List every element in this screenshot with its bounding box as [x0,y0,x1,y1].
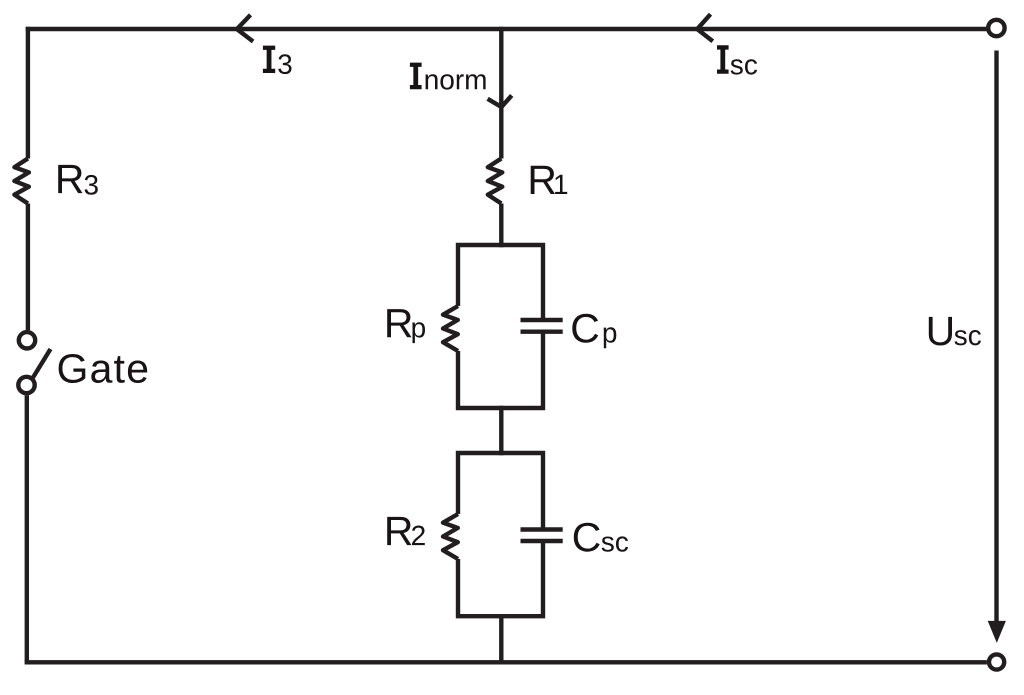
resistor R3 [14,159,29,204]
voltage arrow Usc [988,51,1006,643]
wire: left rail lower [25,395,29,662]
capacitor Csc [521,530,563,542]
resistor R1 [488,159,503,204]
label Usc [929,317,981,346]
label Cp [572,314,616,348]
wire: box2 frame lower [458,541,543,616]
switch Gate [18,332,50,393]
label Rp [387,309,425,343]
wire: R1 to box1 [499,204,503,248]
wire: left rail to switch [26,204,30,331]
label Csc [574,523,628,552]
current arrow Isc [697,14,713,41]
wire: box2 frame upper [458,453,543,530]
wire: bottom rail [25,660,987,664]
label Inorm [410,63,486,90]
resistor Rp [443,306,458,351]
wire: center branch top [499,27,503,159]
wire: left rail upper [26,27,30,159]
wire: box2 to bottom rail [499,614,503,662]
wire: box1 frame lower [458,332,543,408]
label Isc [717,45,757,74]
current arrow Inorm [488,95,512,107]
current arrow I3 [237,15,253,42]
label R1 [531,166,568,194]
terminal: top-right [988,20,1004,36]
wire: box1 to box2 [499,406,503,455]
wire: top rail [26,27,987,31]
label Gate [59,354,148,383]
label I3 [263,46,292,75]
capacitor Cp [521,320,563,332]
label R2 [387,517,425,545]
resistor R2 [443,514,458,559]
wire: box1 frame upper [458,245,543,320]
terminal: bottom-right [989,654,1004,669]
label R3 [58,165,98,195]
